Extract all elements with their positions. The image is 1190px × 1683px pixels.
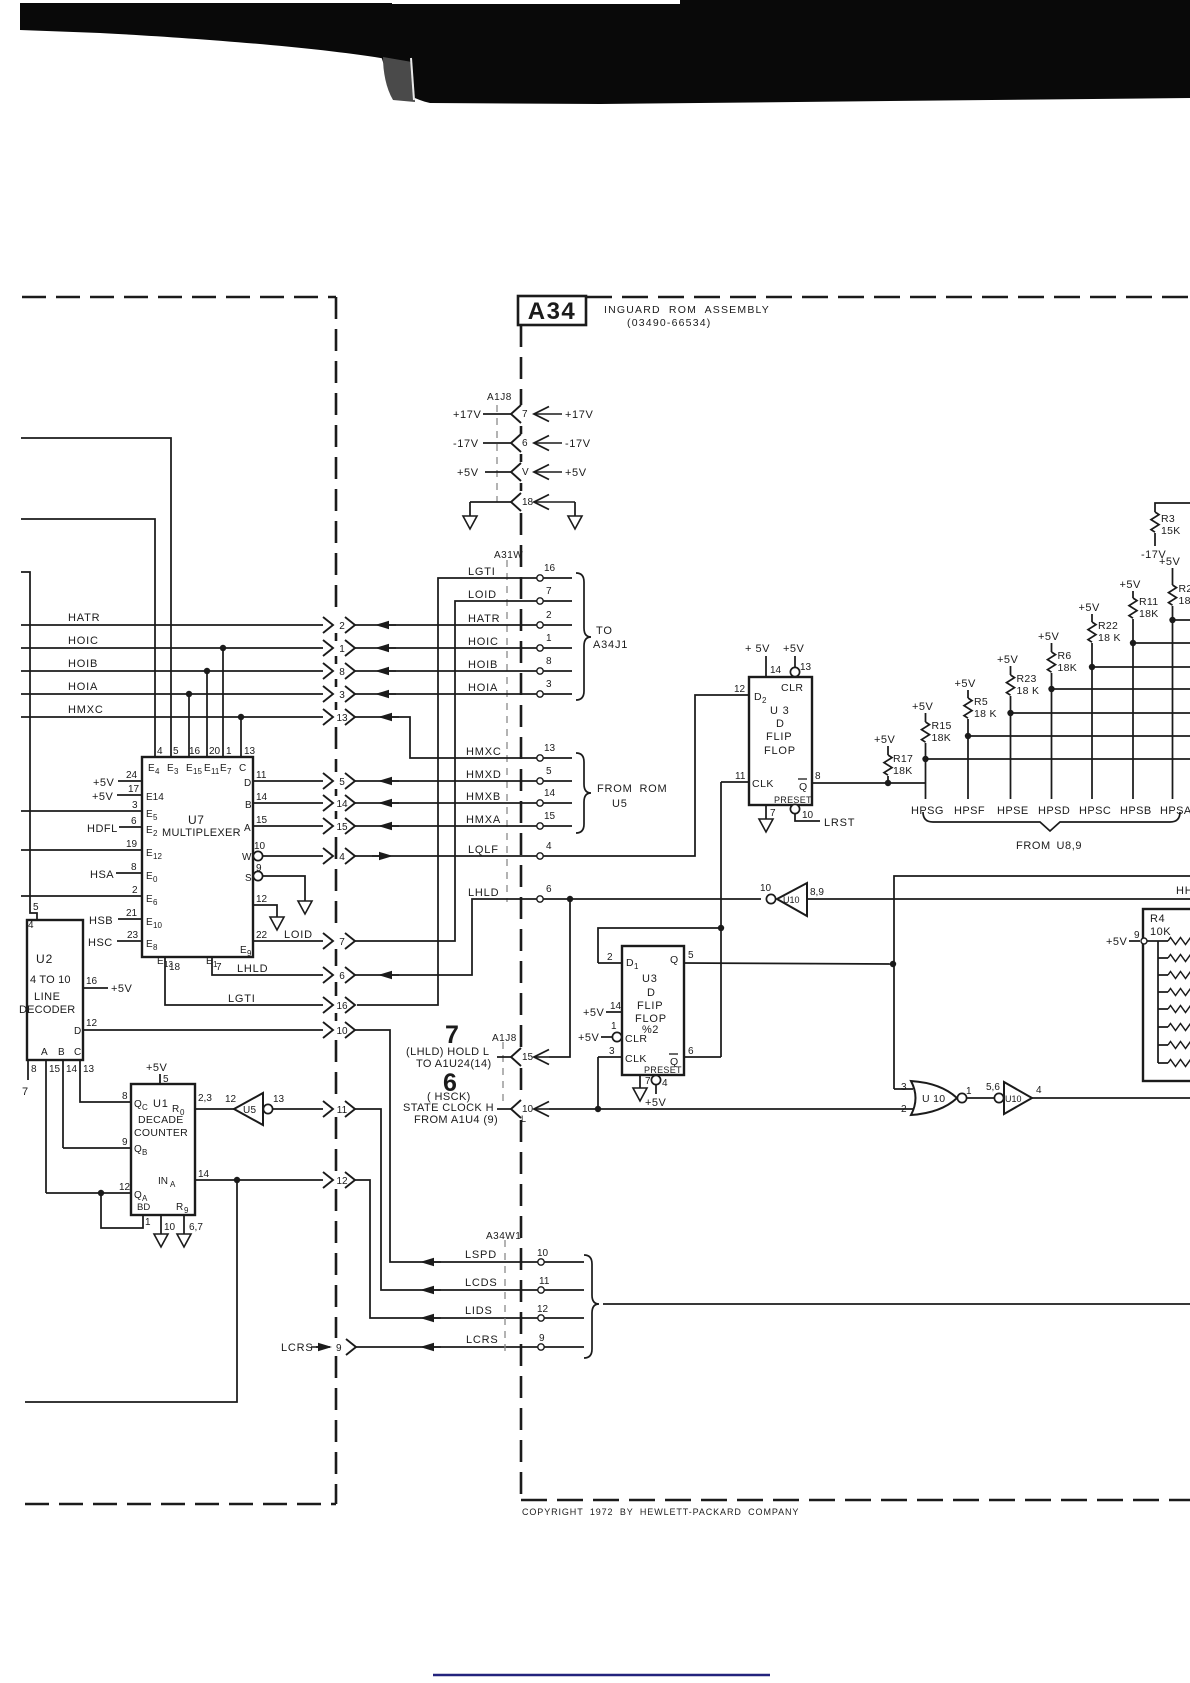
svg-text:HPSG: HPSG <box>911 805 944 817</box>
svg-text:CLK: CLK <box>752 778 774 790</box>
wire Q branch up and right rail <box>894 876 1190 1089</box>
svg-text:10: 10 <box>802 810 814 821</box>
svg-text:HPSF: HPSF <box>954 805 985 817</box>
+17V arrow and source label <box>534 407 593 422</box>
node: Qbar feedback junction <box>718 925 724 931</box>
svg-text:18K: 18K <box>1058 662 1078 674</box>
U1 pin 5 +5V <box>146 1062 169 1085</box>
cable A34W1 dashed body <box>504 1240 506 1352</box>
svg-text:U10: U10 <box>783 895 800 905</box>
svg-text:13: 13 <box>800 662 812 673</box>
svg-text:LHLD: LHLD <box>237 963 268 975</box>
svg-text:HH: HH <box>1176 885 1190 897</box>
U3 PRESET label (second half) <box>644 1065 682 1075</box>
svg-text:2: 2 <box>132 885 138 896</box>
svg-text:3: 3 <box>546 679 552 690</box>
svg-text:E: E <box>148 763 155 774</box>
svg-text:C: C <box>74 1047 81 1058</box>
svg-text:7: 7 <box>645 1076 651 1087</box>
wire HOIC from left edge <box>21 635 323 648</box>
U7 top pin 1 (E7) <box>220 746 232 776</box>
left assembly boundary right border <box>335 297 338 1504</box>
wire HPSC level line to right edge <box>1092 666 1190 668</box>
svg-text:0: 0 <box>153 875 158 884</box>
svg-text:8: 8 <box>131 862 137 873</box>
svg-text:HOIC: HOIC <box>468 636 499 648</box>
pin 8 circle (HOIB) <box>537 656 552 674</box>
svg-text:LGTI: LGTI <box>468 566 496 578</box>
connector pin 11 (LCDS source) <box>323 1101 355 1117</box>
wire HPSF level line to right edge <box>968 735 1190 737</box>
svg-text:16: 16 <box>544 563 556 574</box>
svg-text:E: E <box>186 763 193 774</box>
svg-text:5: 5 <box>33 902 39 913</box>
U3 pin 14 +5V <box>745 643 782 677</box>
wire HMXC across boundary <box>355 713 572 758</box>
svg-text:+5V: +5V <box>1079 602 1101 614</box>
svg-text:D: D <box>74 1026 81 1037</box>
svg-text:A34W1: A34W1 <box>486 1231 521 1242</box>
svg-text:U7: U7 <box>188 813 205 827</box>
svg-text:E: E <box>146 848 153 859</box>
svg-text:2: 2 <box>339 621 345 632</box>
svg-text:9: 9 <box>539 1333 545 1344</box>
node: R2 junction <box>1169 617 1175 623</box>
svg-text:FROM U8,9: FROM U8,9 <box>1016 840 1082 852</box>
svg-text:U1: U1 <box>153 1098 169 1110</box>
svg-text:LCDS: LCDS <box>465 1277 498 1289</box>
svg-text:11: 11 <box>211 767 220 776</box>
connector pin 6 (LHLD) <box>323 967 355 983</box>
-17V feed wire (left) <box>453 438 511 450</box>
connector A1J8 dashed body <box>496 405 498 502</box>
svg-text:1: 1 <box>966 1086 972 1097</box>
wire QA to BD pin 1 <box>101 1193 151 1228</box>
svg-text:7: 7 <box>22 1086 28 1098</box>
note 6 (HSCK) STATE CLOCK H FROM A1U4 (9) <box>403 1069 498 1126</box>
svg-text:Q: Q <box>134 1099 142 1110</box>
pin 10 circle (LSPD) <box>537 1248 549 1265</box>
svg-text:S: S <box>245 873 252 884</box>
op-amp region: U7 multiplexer body <box>142 757 253 957</box>
svg-text:3: 3 <box>174 767 179 776</box>
wire from A34W1 brace to right edge <box>603 1303 1190 1305</box>
U7 pin 7 (E1) LHLD output <box>206 956 323 975</box>
svg-text:DECADE: DECADE <box>138 1114 184 1126</box>
svg-text:A: A <box>41 1047 48 1058</box>
svg-text:+5V: +5V <box>93 777 115 789</box>
connector A1J8 pin 18 <box>511 493 534 511</box>
svg-text:+5V: +5V <box>955 678 977 690</box>
svg-text:6,7: 6,7 <box>189 1222 203 1233</box>
svg-text:15K: 15K <box>1161 525 1181 537</box>
counter U1 body <box>131 1084 195 1215</box>
svg-text:17: 17 <box>128 784 140 795</box>
svg-text:12: 12 <box>256 894 268 905</box>
NOR gate U10 <box>901 1081 972 1115</box>
svg-text:E: E <box>146 939 153 950</box>
wire LGTI riser and row to A34J1 <box>357 566 572 1005</box>
svg-text:B: B <box>245 800 252 811</box>
R4 element 6 <box>1158 1024 1190 1031</box>
pin 4 circle (LQLF) <box>537 841 552 859</box>
A34 boundary top border <box>586 296 1190 299</box>
svg-text:COPYRIGHT 1972 BY HEWLETT-PACK: COPYRIGHT 1972 BY HEWLETT-PACKARD COMPAN… <box>522 1507 799 1517</box>
svg-text:+5V: +5V <box>457 467 479 479</box>
svg-text:9: 9 <box>247 949 252 958</box>
svg-text:8: 8 <box>31 1064 37 1075</box>
A34 boundary left border <box>520 325 523 1500</box>
ground (U3 pin 7) <box>759 819 773 832</box>
wire HMXB across boundary <box>355 791 572 807</box>
svg-text:12: 12 <box>734 684 746 695</box>
svg-text:7: 7 <box>522 409 528 420</box>
connector A1J8 label (lower) <box>492 1033 517 1044</box>
svg-text:A34: A34 <box>528 298 577 325</box>
svg-text:PRESET: PRESET <box>644 1065 682 1075</box>
svg-text:CLK: CLK <box>625 1053 647 1065</box>
U2 pin 5 label <box>33 902 39 913</box>
svg-text:22: 22 <box>256 930 268 941</box>
svg-text:+5V: +5V <box>912 701 934 713</box>
svg-text:18: 18 <box>522 497 534 508</box>
svg-text:R17: R17 <box>893 753 913 765</box>
pin 15 circle (HMXA) <box>537 811 556 829</box>
svg-text:E: E <box>157 956 164 967</box>
connector A1J8 pin 10 <box>511 1100 534 1124</box>
wire HPSD level line to right edge <box>1052 688 1190 690</box>
svg-text:LSPD: LSPD <box>465 1249 497 1261</box>
svg-text:2,3: 2,3 <box>198 1093 212 1104</box>
svg-text:14: 14 <box>544 788 556 799</box>
wire HPSA level line to right edge <box>1173 619 1190 621</box>
A34 title: INGUARD ROM ASSEMBLY <box>604 304 770 329</box>
copyright notice <box>522 1507 799 1517</box>
svg-text:4: 4 <box>546 841 552 852</box>
svg-text:HPSD: HPSD <box>1038 805 1070 817</box>
svg-text:14: 14 <box>66 1064 78 1075</box>
svg-text:6: 6 <box>688 1046 694 1057</box>
svg-text:+5V: +5V <box>111 983 133 995</box>
svg-text:PRESET: PRESET <box>774 795 812 805</box>
svg-text:10: 10 <box>164 1222 176 1233</box>
U7 top pin 13 (C) <box>239 746 256 774</box>
svg-text:6: 6 <box>339 971 345 982</box>
svg-text:D: D <box>647 987 655 999</box>
svg-text:(03490-66534): (03490-66534) <box>627 317 712 329</box>
wire: E3 select line from left edge <box>21 438 171 757</box>
U1 pin 14 (INA) output <box>158 1169 323 1189</box>
left assembly boundary bottom border <box>25 1503 336 1506</box>
U3 pin 8 Qbar output <box>798 771 926 793</box>
svg-text:10: 10 <box>153 921 162 930</box>
pin 7 circle (LOID) <box>537 586 552 604</box>
svg-text:8: 8 <box>815 771 821 782</box>
node: R23 junction <box>1007 710 1013 716</box>
svg-text:E: E <box>204 763 211 774</box>
wire LHLD branch to A1J8 pin 15 <box>549 899 570 1057</box>
U7 pin 18 (E13) LGTI output <box>157 956 323 1005</box>
svg-text:U 10: U 10 <box>922 1093 945 1105</box>
U7 pin 19 (E12) wire from left edge <box>21 839 162 861</box>
svg-text:11: 11 <box>337 1105 348 1116</box>
net label HH (clipped at page edge) <box>1176 885 1190 897</box>
svg-text:Q: Q <box>799 781 807 793</box>
svg-text:16: 16 <box>86 976 98 987</box>
svg-text:2: 2 <box>546 610 552 621</box>
U3 pin 6 Qbar output <box>669 1046 721 1068</box>
ground (U7 pin 12) <box>270 917 284 930</box>
U2 pin 12 (D) output wire to connector <box>74 1018 323 1037</box>
svg-text:U10: U10 <box>1005 1094 1022 1104</box>
+5V arrow and source label <box>534 465 587 480</box>
svg-text:R15: R15 <box>932 720 952 732</box>
U2 pin 16 +5V <box>83 976 133 995</box>
svg-text:5: 5 <box>339 777 345 788</box>
svg-text:HMXC: HMXC <box>466 746 502 758</box>
net label HPSG <box>911 805 944 817</box>
wire U2 pin 14 to U1 QB <box>63 1060 78 1148</box>
U7 top pin 16 (E15) <box>186 746 202 776</box>
ground return arrow wire (right) <box>534 495 575 517</box>
wire INA branch down and left <box>25 1180 237 1402</box>
svg-text:A1J8: A1J8 <box>487 392 512 403</box>
scan artifact: top-right black region <box>380 0 1190 104</box>
svg-text:HOIB: HOIB <box>68 658 98 670</box>
svg-text:15: 15 <box>49 1064 61 1075</box>
U3 pin 10 PRESET (inverted) to LRST <box>790 804 855 829</box>
U7 top pin 5 (E3) <box>167 746 179 776</box>
R4 element 1 <box>1168 938 1190 945</box>
U1 pin 6,7 (R9) to ground <box>176 1202 203 1234</box>
A34 boundary bottom border <box>521 1499 1190 1502</box>
U1 pin 12 (QA) wire <box>46 1182 148 1203</box>
svg-text:4 TO 10: 4 TO 10 <box>30 974 71 986</box>
svg-text:HOIC: HOIC <box>68 635 99 647</box>
svg-text:4: 4 <box>155 767 160 776</box>
wire note6 to connector 10 <box>497 1108 511 1110</box>
svg-text:2: 2 <box>762 696 767 705</box>
wire NOR output to buffer <box>967 1097 994 1099</box>
svg-text:A31W: A31W <box>494 550 523 561</box>
svg-text:HSB: HSB <box>89 915 113 927</box>
svg-text:10: 10 <box>254 841 266 852</box>
U3 pin 3 CLK input <box>598 1046 647 1065</box>
svg-text:4: 4 <box>28 920 34 931</box>
U1 pin 8 (QC) label <box>122 1091 128 1102</box>
svg-text:18 K: 18 K <box>1098 632 1121 644</box>
svg-text:U 3: U 3 <box>770 705 790 717</box>
U1 pin 2,3 (R0) output <box>172 1093 234 1117</box>
pin 5 circle (HMXD) <box>537 766 552 784</box>
svg-text:15: 15 <box>544 811 556 822</box>
svg-text:9: 9 <box>184 1206 189 1215</box>
svg-text:MULTIPLEXER: MULTIPLEXER <box>162 827 241 839</box>
svg-text:18: 18 <box>169 962 181 973</box>
svg-text:D: D <box>754 691 762 703</box>
svg-text:HPSB: HPSB <box>1120 805 1152 817</box>
svg-text:HPSC: HPSC <box>1079 805 1111 817</box>
svg-text:14: 14 <box>256 792 268 803</box>
flip-flop U3 (first half) body <box>749 677 812 805</box>
svg-text:4: 4 <box>1036 1085 1042 1096</box>
buffer U10 (pins 5,6 to 4) <box>986 1082 1042 1114</box>
svg-text:7: 7 <box>339 937 345 948</box>
U3 pin 1 CLR (inverted) +5V <box>578 1021 648 1045</box>
U7 pin 10 (W) inverted output <box>242 841 323 863</box>
svg-text:1: 1 <box>611 1021 617 1032</box>
resistor network R4 10K <box>1106 909 1190 1081</box>
svg-text:18K: 18K <box>1139 608 1159 620</box>
svg-text:R6: R6 <box>1058 650 1072 662</box>
connector A1J8 pin V <box>511 463 529 481</box>
wire HMXD across boundary <box>355 769 572 785</box>
node: E7 riser junction on HOIC <box>220 645 226 757</box>
note 7 (LHLD) HOLD L TO A1U24(14) <box>406 1021 492 1070</box>
U3 pin 5 (Q) output <box>670 950 893 966</box>
svg-text:IN: IN <box>158 1176 168 1187</box>
connector pin 8 (HOIB) <box>323 663 355 679</box>
svg-text:HMXB: HMXB <box>466 791 501 803</box>
connector pin 7 (LOID) <box>323 933 355 949</box>
svg-text:R2: R2 <box>1179 583 1190 595</box>
wire U5 input from connector 11 <box>273 1108 323 1110</box>
-17V arrow and source label <box>534 436 591 451</box>
svg-text:HATR: HATR <box>468 613 500 625</box>
U3 pin 13 CLR (inverted) +5V <box>781 643 812 694</box>
pin 16 circle (LGTI) <box>537 563 556 581</box>
node: C riser junction on HMXC <box>238 714 244 757</box>
svg-text:W: W <box>242 852 252 863</box>
svg-text:+5V: +5V <box>874 734 896 746</box>
svg-text:13: 13 <box>544 743 556 754</box>
node: R17 to Qbar junction <box>885 780 891 786</box>
arrow and state clock wire to NOR gate <box>534 1102 913 1117</box>
wire LOID riser and row to A34J1 <box>355 589 572 941</box>
U1 pin 10 to ground <box>161 1215 176 1234</box>
svg-text:-17V: -17V <box>453 438 479 450</box>
brace TO A34J1 <box>576 573 628 700</box>
svg-text:3: 3 <box>339 690 345 701</box>
svg-text:+5V: +5V <box>1106 936 1128 948</box>
svg-text:E: E <box>146 825 153 836</box>
U7 pin 9 (S) inverted output to ground <box>245 863 305 901</box>
svg-text:+5V: +5V <box>1038 631 1060 643</box>
inverter U5 <box>225 1093 285 1125</box>
svg-text:5: 5 <box>163 1074 169 1085</box>
svg-text:15: 15 <box>193 767 202 776</box>
svg-text:9: 9 <box>1134 930 1140 941</box>
resistor R17 18K pull-up <box>874 734 913 783</box>
wire LQLF to U3 D2 <box>355 695 749 860</box>
svg-text:12: 12 <box>225 1094 237 1105</box>
svg-text:8: 8 <box>339 667 345 678</box>
svg-text:HDFL: HDFL <box>87 823 118 835</box>
+5V feed wire (left) <box>457 467 511 479</box>
node: R22 junction <box>1089 664 1095 670</box>
svg-text:L: L <box>521 1114 526 1124</box>
connector A1J8 dashed body (lower) <box>502 1042 504 1105</box>
U3 pin 12 (D2) input <box>734 684 767 705</box>
U3 pin 7 to ground <box>766 805 776 819</box>
svg-text:21: 21 <box>126 908 138 919</box>
svg-text:7: 7 <box>445 1021 459 1049</box>
U7 pin 6 (E2) HDFL <box>87 816 158 838</box>
wire buffer output to right edge <box>1032 1097 1190 1099</box>
svg-text:LCRS: LCRS <box>466 1334 499 1346</box>
svg-text:D: D <box>244 778 251 789</box>
svg-text:6: 6 <box>131 816 137 827</box>
svg-text:12: 12 <box>153 852 162 861</box>
svg-text:+5V: +5V <box>578 1032 600 1044</box>
svg-text:HMXC: HMXC <box>68 704 104 716</box>
svg-text:LIDS: LIDS <box>465 1305 493 1317</box>
connector pin 13 (HMXC) <box>323 709 355 725</box>
U3 pin 14 +5V <box>583 1001 622 1019</box>
svg-text:14: 14 <box>336 799 348 810</box>
svg-text:CLR: CLR <box>625 1033 648 1045</box>
wire: U2 pin 5 feed from left edge <box>21 572 37 920</box>
connector pin 10 (LSPD source) <box>323 1022 355 1038</box>
svg-text:D: D <box>776 718 784 730</box>
wire: E4 select line from left edge <box>21 519 155 757</box>
wire HATR to A34J1 <box>355 613 572 629</box>
svg-text:R11: R11 <box>1139 596 1158 608</box>
svg-text:12: 12 <box>119 1182 131 1193</box>
svg-text:R4: R4 <box>1150 913 1165 925</box>
svg-text:9: 9 <box>256 863 262 874</box>
svg-text:16: 16 <box>189 746 201 757</box>
svg-text:10: 10 <box>760 883 772 894</box>
U2 bottom pin labels A B C <box>41 1047 81 1058</box>
wire feedback vertical (U3#1 CLK to U3#2 Qbar) <box>720 782 722 1057</box>
svg-text:16: 16 <box>336 1001 348 1012</box>
svg-text:HSC: HSC <box>88 937 113 949</box>
node: Q output junction <box>890 961 896 967</box>
svg-text:U3: U3 <box>642 973 658 985</box>
svg-text:INGUARD ROM ASSEMBLY: INGUARD ROM ASSEMBLY <box>604 304 770 316</box>
net label HPSA <box>1160 805 1190 817</box>
svg-text:14: 14 <box>610 1001 622 1012</box>
svg-text:+5V: +5V <box>583 1007 605 1019</box>
R4 element 2 <box>1158 955 1190 962</box>
svg-text:HSA: HSA <box>90 869 114 881</box>
net label HPSE <box>997 805 1029 817</box>
svg-text:HOIA: HOIA <box>468 682 498 694</box>
svg-text:FROM A1U4 (9): FROM A1U4 (9) <box>414 1114 498 1126</box>
svg-text:+5V: +5V <box>146 1062 168 1074</box>
arrow on LHLD hold wire <box>534 1050 549 1065</box>
pin 1 circle (HOIC) <box>537 633 552 651</box>
U7 pin 17 (E14) +5V <box>92 784 164 803</box>
svg-text:C: C <box>239 763 246 774</box>
svg-text:+5V: +5V <box>997 654 1019 666</box>
U3 pin 4 PRESET (inverted) to +5V <box>645 1075 668 1109</box>
svg-text:11: 11 <box>539 1276 550 1287</box>
wire LCRS row <box>281 1334 584 1355</box>
connector pin 14 (HMXB) <box>323 795 355 811</box>
U7 pin 15 (A) output <box>244 815 323 834</box>
ground return wire (left) <box>470 502 511 516</box>
node: R11 junction <box>1130 640 1136 646</box>
svg-text:HATR: HATR <box>68 612 100 624</box>
svg-text:3: 3 <box>132 800 138 811</box>
svg-text:5: 5 <box>153 813 158 822</box>
svg-text:B: B <box>58 1047 65 1058</box>
svg-text:R3: R3 <box>1161 513 1175 525</box>
U3 pin 7 to ground (second half) <box>640 1075 651 1088</box>
svg-text:18K: 18K <box>932 732 952 744</box>
